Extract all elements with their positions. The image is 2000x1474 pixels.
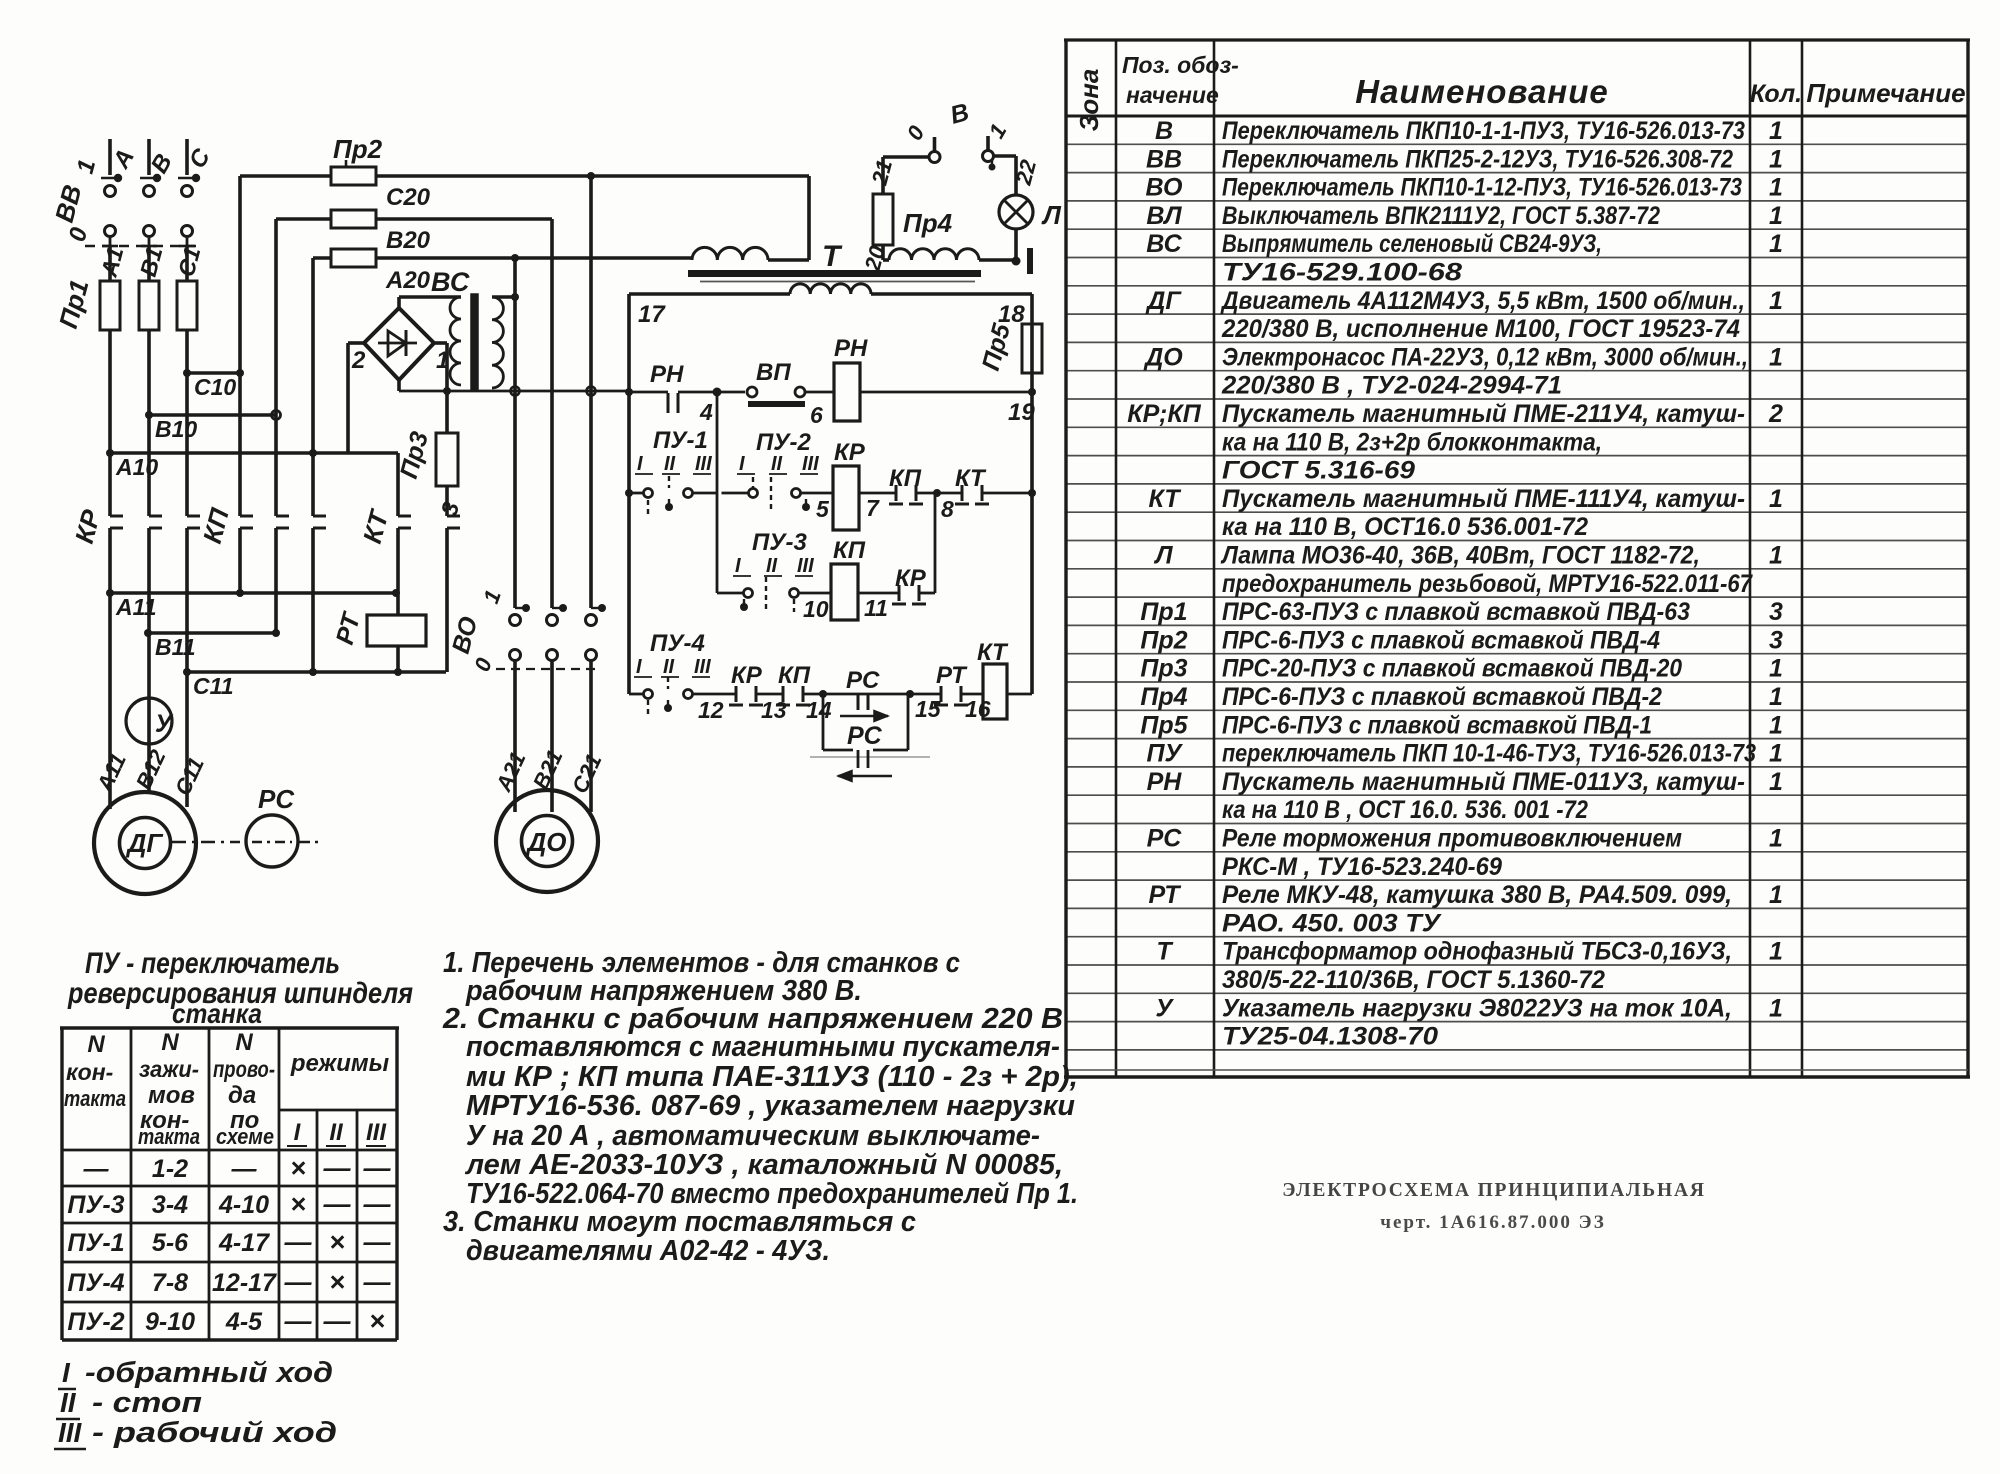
svg-text:РН: РН [650, 361, 684, 388]
svg-text:ВС: ВС [1146, 230, 1182, 258]
svg-text:двигателями А02-42 - 4УЗ.: двигателями А02-42 - 4УЗ. [466, 1235, 830, 1267]
svg-text:III: III [58, 1417, 83, 1448]
svg-text:1: 1 [1769, 287, 1783, 315]
svg-text:III: III [802, 453, 819, 475]
svg-text:—: — [363, 1189, 392, 1219]
svg-text:ВС: ВС [431, 267, 470, 297]
svg-text:Наименование: Наименование [1355, 73, 1609, 110]
svg-text:КТ: КТ [1149, 485, 1183, 513]
svg-text:8: 8 [941, 496, 954, 522]
svg-text:Выключатель ВПК2111У2, ГОСТ: Выключатель ВПК2111У2, ГОСТ 5.387-72 [1222, 202, 1660, 230]
svg-text:КП: КП [778, 662, 811, 689]
svg-text:начение: начение [1126, 82, 1219, 108]
svg-text:В10: В10 [155, 416, 197, 442]
svg-text:КР;КП: КР;КП [1127, 400, 1201, 428]
svg-text:Реле МКУ-48, катушка 380 В, Р: Реле МКУ-48, катушка 380 В, РА4.509. 099… [1222, 881, 1732, 909]
svg-text:ПРС-20-ПУЗ с плавкой вставкой: ПРС-20-ПУЗ с плавкой вставкой ПВД-20 [1222, 655, 1682, 683]
svg-text:N: N [235, 1029, 253, 1056]
svg-text:РС: РС [846, 667, 880, 694]
svg-text:III: III [366, 1119, 387, 1146]
svg-text:Кол.: Кол. [1750, 80, 1802, 108]
svg-text:I: I [62, 1357, 71, 1388]
svg-text:17: 17 [638, 301, 666, 328]
svg-text:А20: А20 [385, 267, 431, 294]
svg-text:I: I [739, 453, 745, 475]
svg-text:В11: В11 [155, 634, 196, 660]
svg-text:Пускатель магнитный ПМЕ-211У4,: Пускатель магнитный ПМЕ-211У4, катуш- [1222, 400, 1745, 428]
svg-text:10: 10 [803, 596, 829, 622]
svg-text:1: 1 [1769, 655, 1783, 683]
svg-text:У на 20 А , автоматическим: У на 20 А , автоматическим выключате- [466, 1120, 1040, 1152]
svg-text:РС: РС [1147, 825, 1183, 853]
svg-text:I: I [636, 656, 642, 678]
svg-text:1: 1 [1769, 117, 1783, 145]
svg-text:1: 1 [1769, 881, 1783, 909]
svg-text:6: 6 [810, 402, 823, 428]
svg-text:ДГ: ДГ [1145, 287, 1182, 315]
svg-text:С20: С20 [386, 184, 431, 211]
svg-text:1: 1 [1769, 683, 1783, 711]
svg-text:15: 15 [915, 696, 942, 722]
svg-text:ПРС-63-ПУЗ с плавкой вставкой: ПРС-63-ПУЗ с плавкой вставкой ПВД-63 [1222, 598, 1690, 626]
svg-text:N: N [87, 1031, 105, 1058]
svg-text:ВЛ: ВЛ [1146, 202, 1182, 230]
svg-text:ВО: ВО [1146, 174, 1183, 202]
svg-text:У: У [155, 710, 174, 738]
svg-text:ми КР ; КП типа ПАЕ-311УЗ (: ми КР ; КП типа ПАЕ-311УЗ (110 - 2з + 2р… [466, 1061, 1078, 1093]
svg-text:4-10: 4-10 [218, 1191, 269, 1219]
svg-text:Лампа МО36-40, 36В, 40Вт, ГОСТ: Лампа МО36-40, 36В, 40Вт, ГОСТ 1182-72, [1220, 542, 1700, 570]
svg-text:Переключатель ПКП25-2-12УЗ, ТУ: Переключатель ПКП25-2-12УЗ, ТУ16-526.308… [1222, 145, 1733, 173]
svg-text:У: У [1156, 994, 1175, 1022]
svg-text:1: 1 [1769, 740, 1783, 768]
svg-text:12: 12 [698, 697, 724, 723]
svg-text:Зона: Зона [1074, 69, 1104, 132]
svg-text:—: — [323, 1189, 352, 1219]
svg-text:прово-: прово- [213, 1056, 275, 1082]
svg-text:7: 7 [866, 495, 880, 521]
svg-text:КП: КП [889, 465, 922, 492]
svg-text:МРТУ16-536. 087-69 , указателе: МРТУ16-536. 087-69 , указателем нагрузки [466, 1090, 1075, 1122]
svg-text:лем АЕ-2033-10УЗ , каталожны: лем АЕ-2033-10УЗ , каталожный N 00085, [464, 1149, 1063, 1181]
svg-text:II: II [766, 555, 778, 577]
svg-text:РН: РН [1147, 768, 1183, 796]
svg-text:II: II [663, 656, 675, 678]
svg-text:II: II [329, 1119, 344, 1146]
svg-text:ПУ: ПУ [1147, 740, 1184, 768]
svg-text:1: 1 [1769, 994, 1783, 1022]
svg-text:5: 5 [816, 496, 830, 522]
svg-text:Указатель нагрузки Э8022УЗ на: Указатель нагрузки Э8022УЗ на ток 10А, [1222, 994, 1732, 1022]
svg-text:1: 1 [1769, 174, 1783, 202]
svg-text:Пр5: Пр5 [1140, 711, 1188, 739]
svg-text:II: II [60, 1387, 77, 1418]
svg-text:ТУ16-529.100-68: ТУ16-529.100-68 [1222, 259, 1462, 287]
svg-text:КТ: КТ [955, 465, 987, 492]
svg-text:—: — [83, 1155, 110, 1183]
svg-text:Пр2: Пр2 [1140, 626, 1187, 654]
svg-text:III: III [695, 453, 712, 475]
svg-text:схеме: схеме [216, 1124, 274, 1149]
svg-text:II: II [771, 453, 783, 475]
svg-text:КТ: КТ [977, 639, 1009, 666]
svg-text:кон-: кон- [66, 1059, 113, 1085]
svg-text:-обратный ход: -обратный ход [85, 1357, 333, 1389]
svg-text:—: — [284, 1267, 313, 1297]
svg-text:- рабочий ход: - рабочий ход [92, 1417, 337, 1449]
svg-text:3: 3 [1769, 626, 1783, 654]
svg-text:Пускатель магнитный ПМЕ-011УЗ: Пускатель магнитный ПМЕ-011УЗ, катуш- [1222, 768, 1745, 796]
svg-text:РС: РС [258, 784, 295, 814]
svg-text:черт. 1А616.87.000 ЭЗ: черт. 1А616.87.000 ЭЗ [1380, 1212, 1606, 1233]
svg-text:3. Станки могут поставляться: 3. Станки могут поставляться с [443, 1206, 916, 1238]
svg-text:—: — [363, 1227, 392, 1257]
svg-text:режимы: режимы [290, 1050, 390, 1077]
svg-text:предохранитель резьбовой, МРТУ: предохранитель резьбовой, МРТУ16-522.011… [1222, 570, 1753, 598]
svg-text:×: × [329, 1267, 345, 1297]
svg-text:переключатель ПКП 10-1-46-ТУЗ,: переключатель ПКП 10-1-46-ТУЗ, ТУ16-526.… [1222, 740, 1756, 768]
svg-text:220/380 В , ТУ2-024-2994-71: 220/380 В , ТУ2-024-2994-71 [1221, 372, 1562, 400]
svg-text:II: II [664, 453, 676, 475]
svg-text:1: 1 [1769, 768, 1783, 796]
svg-text:1: 1 [1769, 202, 1783, 230]
svg-text:—: — [231, 1155, 258, 1183]
svg-text:да: да [228, 1082, 256, 1109]
svg-text:ПУ-3: ПУ-3 [752, 529, 808, 556]
svg-text:1: 1 [1769, 145, 1783, 173]
svg-text:ПУ-4: ПУ-4 [650, 630, 705, 657]
svg-text:Поз. обоз-: Поз. обоз- [1122, 52, 1239, 78]
svg-text:1: 1 [1769, 542, 1783, 570]
svg-text:14: 14 [806, 697, 832, 723]
svg-text:Л: Л [1153, 542, 1173, 570]
svg-text:Л: Л [1041, 200, 1062, 230]
svg-text:ГОСТ 5.316-69: ГОСТ 5.316-69 [1222, 457, 1415, 485]
svg-text:7-8: 7-8 [152, 1269, 188, 1297]
svg-text:ПУ - переключатель: ПУ - переключатель [85, 947, 340, 980]
svg-text:Двигатель 4А112М4УЗ, 5,5 кВт,: Двигатель 4А112М4УЗ, 5,5 кВт, 1500 об/ми… [1220, 287, 1745, 315]
svg-text:ПРС-6-ПУЗ с плавкой вставкой: ПРС-6-ПУЗ с плавкой вставкой ПВД-1 [1222, 711, 1652, 739]
svg-text:ПУ-1: ПУ-1 [653, 427, 708, 454]
svg-text:12-17: 12-17 [212, 1269, 277, 1297]
svg-text:КП: КП [833, 537, 866, 564]
svg-text:Пр2: Пр2 [333, 134, 383, 164]
svg-text:ПУ-2: ПУ-2 [67, 1308, 124, 1336]
svg-text:ВВ: ВВ [1146, 145, 1182, 173]
svg-text:9-10: 9-10 [145, 1308, 195, 1336]
svg-text:В: В [1155, 117, 1173, 145]
svg-text:—: — [323, 1306, 352, 1336]
svg-text:—: — [323, 1153, 352, 1183]
svg-text:С10: С10 [194, 374, 236, 400]
svg-text:4-5: 4-5 [225, 1308, 263, 1336]
svg-text:I: I [637, 453, 643, 475]
svg-text:2: 2 [1768, 400, 1783, 428]
svg-text:1: 1 [1769, 230, 1783, 258]
svg-text:×: × [290, 1189, 306, 1219]
svg-text:ка на 110 В, ОСТ16.0 536.001-7: ка на 110 В, ОСТ16.0 536.001-72 [1222, 513, 1588, 541]
svg-text:РАО. 450. 003 ТУ: РАО. 450. 003 ТУ [1222, 909, 1442, 937]
svg-text:Переключатель ПКП10-1-12-ПУЗ,: Переключатель ПКП10-1-12-ПУЗ, ТУ16-526.0… [1222, 174, 1742, 202]
svg-text:1: 1 [1769, 343, 1783, 371]
svg-text:×: × [290, 1153, 306, 1183]
svg-text:III: III [694, 656, 711, 678]
svg-text:Пр4: Пр4 [903, 208, 953, 238]
svg-text:—: — [284, 1306, 313, 1336]
svg-text:5-6: 5-6 [152, 1229, 189, 1257]
svg-text:Примечание: Примечание [1806, 78, 1965, 108]
svg-text:ДО: ДО [526, 827, 567, 857]
svg-text:2: 2 [351, 347, 366, 374]
svg-text:ПУ-1: ПУ-1 [67, 1229, 124, 1257]
svg-text:Переключатель ПКП10-1-1-ПУЗ, Т: Переключатель ПКП10-1-1-ПУЗ, ТУ16-526.01… [1222, 117, 1745, 145]
svg-text:×: × [329, 1227, 345, 1257]
svg-text:3: 3 [1769, 598, 1783, 626]
svg-text:Трансформатор однофазный ТБСЗ-: Трансформатор однофазный ТБСЗ-0,16УЗ, [1222, 938, 1732, 966]
svg-text:Пр1: Пр1 [1140, 598, 1187, 626]
svg-text:РКС-М , ТУ16-523.240-69: РКС-М , ТУ16-523.240-69 [1222, 853, 1502, 881]
svg-text:ПУ-2: ПУ-2 [756, 429, 812, 456]
svg-text:4-17: 4-17 [218, 1229, 270, 1257]
svg-text:КР: КР [895, 565, 927, 592]
svg-text:зажи-: зажи- [139, 1056, 199, 1082]
svg-text:С11: С11 [193, 673, 234, 699]
svg-text:ка на 110 В , ОСТ 16.0. 536. 0: ка на 110 В , ОСТ 16.0. 536. 001 -72 [1222, 796, 1588, 824]
svg-text:ЭЛЕКТРОСХЕМА ПРИНЦИПИАЛЬНАЯ: ЭЛЕКТРОСХЕМА ПРИНЦИПИАЛЬНАЯ [1282, 1180, 1705, 1201]
svg-text:мов: мов [148, 1082, 195, 1109]
svg-text:ПУ-3: ПУ-3 [67, 1191, 124, 1219]
svg-text:РТ: РТ [936, 662, 968, 689]
svg-text:220/380 В, исполнение М100, ГО: 220/380 В, исполнение М100, ГОСТ 19523-7… [1221, 315, 1740, 343]
svg-text:Пр4: Пр4 [1140, 683, 1187, 711]
svg-text:ПРС-6-ПУЗ с плавкой вставкой П: ПРС-6-ПУЗ с плавкой вставкой ПВД-4 [1222, 626, 1660, 654]
svg-text:Т: Т [822, 240, 843, 273]
svg-text:Выпрямитель селеновый СВ24-9УЗ: Выпрямитель селеновый СВ24-9УЗ, [1222, 230, 1602, 258]
svg-text:Электронасос ПА-22УЗ, 0,12 кВт: Электронасос ПА-22УЗ, 0,12 кВт, 3000 об/… [1222, 343, 1748, 371]
svg-text:1: 1 [1769, 711, 1783, 739]
svg-text:А10: А10 [115, 454, 158, 480]
svg-text:А11: А11 [115, 594, 157, 620]
svg-text:ВП: ВП [756, 359, 791, 386]
svg-text:ка на 110 В, 2з+2р блокконтакт: ка на 110 В, 2з+2р блокконтакта, [1222, 428, 1602, 456]
svg-text:такта: такта [64, 1086, 126, 1111]
svg-text:КР: КР [731, 662, 763, 689]
svg-text:РС: РС [847, 722, 883, 750]
svg-text:4: 4 [699, 399, 713, 425]
svg-text:—: — [363, 1153, 392, 1183]
svg-text:ТУ25-04.1308-70: ТУ25-04.1308-70 [1222, 1023, 1438, 1051]
svg-text:поставляются с магнитными п: поставляются с магнитными пускателя- [466, 1031, 1060, 1063]
svg-text:Пускатель магнитный ПМЕ-111У4,: Пускатель магнитный ПМЕ-111У4, катуш- [1222, 485, 1745, 513]
svg-text:- стоп: - стоп [92, 1387, 202, 1419]
svg-text:Пр3: Пр3 [1140, 655, 1187, 683]
svg-text:I: I [735, 555, 741, 577]
svg-text:1: 1 [1769, 938, 1783, 966]
svg-text:ПРС-6-ПУЗ с плавкой вставкой: ПРС-6-ПУЗ с плавкой вставкой ПВД-2 [1222, 683, 1662, 711]
svg-text:такта: такта [138, 1124, 200, 1149]
svg-text:11: 11 [864, 595, 888, 621]
svg-text:Реле торможения противовключен: Реле торможения противовключением [1222, 825, 1682, 853]
svg-text:380/5-22-110/36В, ГОСТ 5.1360-: 380/5-22-110/36В, ГОСТ 5.1360-72 [1222, 966, 1605, 994]
svg-text:1-2: 1-2 [152, 1155, 188, 1183]
svg-text:N: N [161, 1029, 179, 1056]
svg-text:3-4: 3-4 [152, 1191, 188, 1219]
svg-text:ДГ: ДГ [126, 828, 164, 858]
svg-text:КР: КР [834, 439, 866, 466]
svg-text:×: × [369, 1306, 385, 1336]
svg-text:1: 1 [1769, 485, 1783, 513]
svg-text:—: — [284, 1227, 313, 1257]
svg-text:ПУ-4: ПУ-4 [67, 1269, 124, 1297]
svg-text:III: III [797, 555, 814, 577]
svg-text:19: 19 [1008, 399, 1035, 426]
svg-text:1: 1 [1769, 825, 1783, 853]
svg-text:В20: В20 [386, 227, 431, 254]
svg-text:РТ: РТ [1149, 881, 1183, 909]
svg-text:ДО: ДО [1143, 343, 1183, 371]
svg-text:—: — [363, 1267, 392, 1297]
svg-text:РН: РН [834, 335, 868, 362]
svg-text:станка: станка [172, 998, 262, 1029]
